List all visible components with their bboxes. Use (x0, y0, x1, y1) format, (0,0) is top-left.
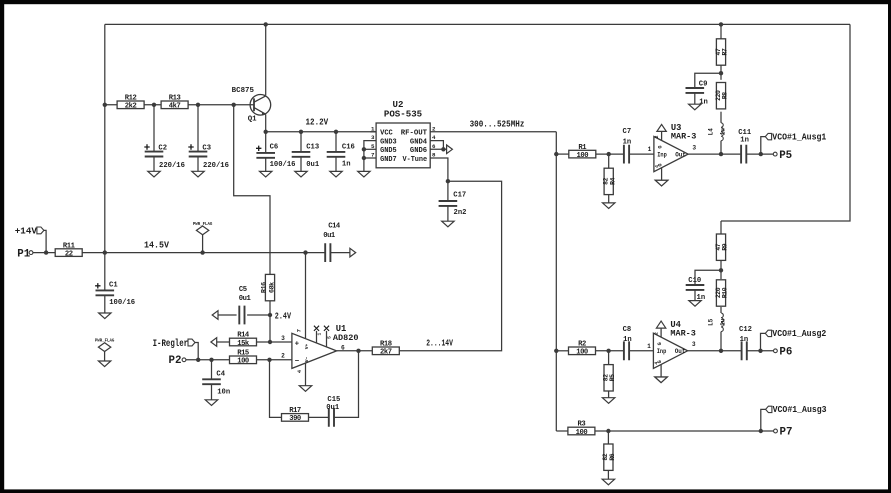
svg-text:R10: R10 (722, 287, 729, 298)
svg-text:R18: R18 (380, 341, 392, 349)
svg-text:P1: P1 (17, 248, 30, 260)
svg-text:R2: R2 (578, 341, 586, 349)
svg-text:C3: C3 (202, 144, 211, 152)
svg-text:C5: C5 (239, 286, 247, 294)
svg-text:7: 7 (371, 152, 375, 159)
svg-text:I-Regler: I-Regler (153, 338, 189, 350)
svg-text:R6: R6 (609, 453, 616, 460)
svg-text:2: 2 (654, 135, 660, 138)
svg-text:6: 6 (341, 344, 345, 351)
svg-text:1u: 1u (720, 318, 727, 326)
svg-text:100/16: 100/16 (270, 161, 296, 169)
svg-text:100: 100 (576, 429, 588, 437)
svg-text:100/16: 100/16 (109, 299, 135, 307)
svg-text:C14: C14 (328, 223, 341, 231)
svg-text:1u: 1u (720, 128, 727, 136)
svg-text:R1: R1 (578, 144, 587, 152)
svg-text:Q1: Q1 (248, 116, 257, 124)
svg-text:C13: C13 (306, 143, 319, 151)
svg-text:R12: R12 (125, 95, 137, 103)
svg-text:Out: Out (675, 152, 686, 159)
svg-text:1n: 1n (740, 137, 749, 145)
svg-text:390: 390 (289, 415, 301, 423)
svg-text:2: 2 (281, 353, 285, 360)
svg-text:GND6: GND6 (410, 147, 428, 155)
svg-text:C6: C6 (270, 143, 279, 151)
svg-text:14.5V: 14.5V (144, 240, 169, 251)
svg-text:R7: R7 (722, 48, 729, 55)
svg-text:8: 8 (432, 152, 436, 159)
svg-text:R15: R15 (237, 350, 249, 358)
svg-text:2.4V: 2.4V (275, 310, 292, 321)
svg-text:G: G (657, 342, 663, 345)
svg-text:0u1: 0u1 (326, 404, 340, 412)
svg-text:C2: C2 (158, 144, 167, 152)
svg-text:C12: C12 (739, 326, 752, 334)
svg-text:R13: R13 (169, 95, 181, 103)
svg-text:V−: V− (304, 357, 310, 363)
svg-text:15k: 15k (237, 340, 250, 348)
svg-text:220/16: 220/16 (203, 162, 229, 170)
svg-text:3: 3 (692, 341, 696, 348)
svg-text:1n: 1n (623, 139, 632, 147)
svg-text:P7: P7 (780, 427, 793, 439)
svg-text:1: 1 (647, 343, 651, 350)
svg-text:R5: R5 (609, 374, 616, 381)
svg-text:0u1: 0u1 (306, 161, 320, 169)
svg-text:100: 100 (576, 349, 588, 357)
svg-text:1: 1 (316, 333, 322, 336)
svg-text:+: + (295, 340, 300, 348)
svg-text:22: 22 (65, 250, 73, 258)
svg-text:MAR-3: MAR-3 (671, 132, 697, 142)
svg-text:GND5: GND5 (380, 147, 397, 155)
svg-text:VCO#1_Ausg1: VCO#1_Ausg1 (772, 131, 826, 142)
svg-text:R17: R17 (289, 407, 301, 415)
svg-text:P6: P6 (779, 347, 792, 359)
svg-text:C16: C16 (342, 143, 355, 151)
svg-text:GND7: GND7 (380, 156, 397, 164)
svg-text:C17: C17 (453, 192, 466, 200)
svg-text:C15: C15 (327, 396, 340, 404)
svg-text:C8: C8 (623, 326, 632, 334)
svg-text:R16: R16 (261, 282, 268, 293)
svg-text:VCC: VCC (380, 130, 393, 138)
svg-text:R11: R11 (63, 242, 76, 250)
svg-text:4: 4 (432, 134, 436, 141)
svg-text:BC875: BC875 (232, 87, 255, 95)
svg-text:Out: Out (675, 348, 686, 355)
svg-text:R14: R14 (237, 332, 250, 340)
svg-text:MAR-3: MAR-3 (670, 328, 696, 338)
svg-text:1n: 1n (342, 161, 351, 169)
svg-text:POS-535: POS-535 (384, 109, 422, 120)
svg-text:C10: C10 (688, 277, 701, 285)
svg-text:C4: C4 (216, 371, 225, 379)
svg-text:G: G (657, 146, 663, 149)
svg-text:0u1: 0u1 (239, 295, 252, 303)
svg-text:3: 3 (692, 144, 696, 151)
svg-text:R8: R8 (722, 92, 729, 99)
svg-text:L5: L5 (708, 318, 715, 326)
svg-text:2n2: 2n2 (454, 209, 467, 217)
svg-text:4: 4 (654, 165, 660, 168)
svg-text:C9: C9 (699, 81, 708, 89)
svg-text:V-Tune: V-Tune (403, 156, 428, 164)
svg-text:7: 7 (296, 329, 303, 332)
svg-text:2: 2 (432, 125, 436, 132)
svg-text:Inp: Inp (657, 348, 667, 355)
svg-text:6: 6 (432, 143, 436, 150)
svg-text:5: 5 (326, 336, 332, 339)
svg-text:L4: L4 (708, 128, 715, 136)
svg-text:4k7: 4k7 (169, 103, 181, 111)
svg-text:100: 100 (577, 152, 589, 160)
svg-text:1: 1 (648, 146, 652, 153)
svg-text:10n: 10n (217, 389, 230, 397)
svg-text:1: 1 (371, 125, 375, 132)
svg-text:V+: V+ (304, 344, 310, 350)
svg-text:0u1: 0u1 (323, 232, 336, 240)
svg-text:VCO#1_Ausg3: VCO#1_Ausg3 (773, 404, 827, 415)
svg-text:GND4: GND4 (410, 138, 428, 146)
svg-text:VCO#1_Ausg2: VCO#1_Ausg2 (772, 328, 826, 339)
svg-text:C1: C1 (109, 282, 118, 290)
svg-text:68k: 68k (269, 282, 276, 293)
svg-text:RF-OUT: RF-OUT (401, 130, 428, 138)
svg-text:2k2: 2k2 (125, 103, 137, 111)
svg-text:−: − (295, 358, 300, 366)
svg-text:R4: R4 (609, 177, 616, 184)
svg-text:R9: R9 (722, 243, 729, 250)
svg-text:P5: P5 (779, 150, 792, 162)
svg-text:5: 5 (371, 143, 375, 150)
svg-text:1n: 1n (623, 336, 632, 344)
svg-text:C7: C7 (623, 128, 632, 136)
svg-text:Inp: Inp (657, 152, 667, 159)
svg-text:2...14V: 2...14V (426, 338, 453, 349)
svg-text:100: 100 (237, 358, 249, 366)
svg-text:12.2V: 12.2V (306, 117, 329, 128)
svg-text:P2: P2 (169, 355, 182, 367)
svg-text:R3: R3 (578, 421, 586, 429)
svg-text:4: 4 (654, 362, 660, 365)
svg-text:2k7: 2k7 (380, 349, 392, 357)
svg-text:1n: 1n (740, 336, 749, 344)
svg-text:300...525MHz: 300...525MHz (470, 119, 525, 130)
svg-text:3: 3 (281, 335, 285, 342)
svg-text:GND3: GND3 (380, 138, 397, 146)
svg-text:2: 2 (654, 332, 660, 335)
svg-text:AD820: AD820 (333, 333, 359, 343)
svg-text:3: 3 (371, 134, 375, 141)
svg-text:220/16: 220/16 (159, 162, 185, 170)
svg-text:+14V: +14V (15, 226, 38, 237)
